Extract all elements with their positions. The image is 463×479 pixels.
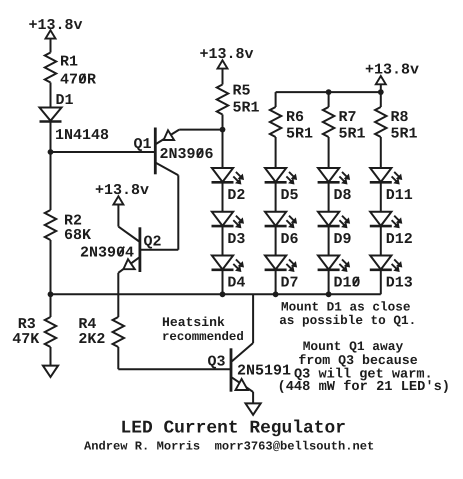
svg-text:+13.8v: +13.8v — [365, 62, 419, 79]
svg-text:+13.8v: +13.8v — [95, 182, 149, 199]
svg-text:47K: 47K — [12, 331, 39, 348]
svg-text:Mount Q1 away: Mount Q1 away — [303, 339, 404, 354]
svg-text:D9: D9 — [334, 231, 352, 248]
svg-text:D8: D8 — [334, 187, 352, 204]
svg-text:2N5191: 2N5191 — [237, 363, 291, 380]
svg-text:2K2: 2K2 — [78, 331, 105, 348]
svg-text:D6: D6 — [281, 231, 299, 248]
svg-text:5R1: 5R1 — [339, 125, 366, 142]
svg-text:5R1: 5R1 — [391, 125, 418, 142]
svg-text:470R: 470R — [60, 72, 96, 89]
svg-text:R8: R8 — [391, 109, 409, 126]
svg-text:D13: D13 — [386, 275, 413, 292]
svg-text:D1: D1 — [56, 92, 74, 109]
svg-text:(448 mW for 21 LED's): (448 mW for 21 LED's) — [278, 379, 451, 395]
svg-text:Q3: Q3 — [208, 354, 226, 371]
svg-text:recommended: recommended — [162, 330, 244, 344]
svg-text:D12: D12 — [386, 231, 413, 248]
svg-text:+13.8v: +13.8v — [29, 17, 83, 34]
svg-text:D11: D11 — [386, 187, 413, 204]
svg-text:D4: D4 — [227, 275, 245, 292]
svg-text:D3: D3 — [227, 231, 245, 248]
svg-text:D2: D2 — [227, 187, 245, 204]
svg-text:5R1: 5R1 — [233, 100, 260, 117]
svg-text:68K: 68K — [64, 227, 91, 244]
svg-text:R5: R5 — [233, 83, 251, 100]
svg-text:2N3904: 2N3904 — [80, 244, 134, 261]
svg-text:R7: R7 — [339, 109, 357, 126]
svg-text:+13.8v: +13.8v — [200, 46, 254, 63]
svg-text:from Q3 because: from Q3 because — [298, 353, 417, 368]
svg-text:Heatsink: Heatsink — [162, 315, 225, 330]
svg-text:Q2: Q2 — [144, 234, 162, 251]
svg-text:LED Current Regulator: LED Current Regulator — [121, 419, 346, 439]
svg-text:2N3906: 2N3906 — [160, 146, 214, 163]
svg-text:Q1: Q1 — [134, 136, 152, 153]
svg-text:R6: R6 — [286, 109, 304, 126]
svg-text:as possible to Q1.: as possible to Q1. — [279, 313, 416, 328]
svg-text:Andrew R. Morris morr3763@bel: Andrew R. Morris morr3763@bellsouth.net — [84, 440, 374, 454]
svg-text:D5: D5 — [281, 187, 299, 204]
svg-text:1N4148: 1N4148 — [55, 127, 109, 144]
svg-text:5R1: 5R1 — [286, 125, 313, 142]
svg-text:D7: D7 — [281, 275, 299, 292]
svg-text:D10: D10 — [334, 275, 361, 292]
svg-text:R1: R1 — [60, 54, 78, 71]
